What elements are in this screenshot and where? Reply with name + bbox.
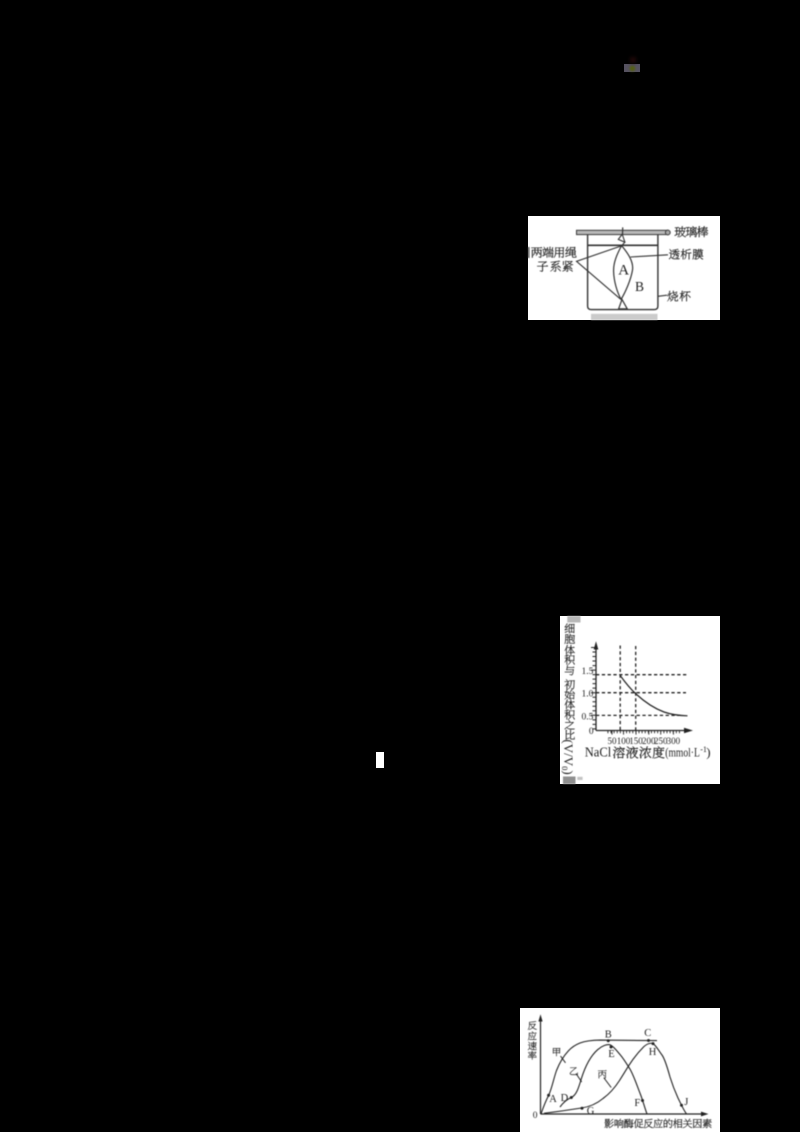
figure 1: dialysis bag in beaker bbox=[528, 216, 720, 320]
x-axis title: factors affecting enzymatic reaction bbox=[604, 1119, 711, 1128]
water surface line bbox=[588, 244, 658, 246]
gray smudge top of label column bbox=[567, 616, 580, 623]
cropped character sliver at panel left edge bbox=[528, 247, 529, 258]
label touxi mo (dialysis membrane) bbox=[669, 249, 703, 260]
svg-text:0: 0 bbox=[589, 727, 594, 737]
y axis bbox=[595, 646, 597, 731]
label bing bbox=[598, 1070, 607, 1078]
y-axis label: cell volume ratio (vertical) bbox=[565, 623, 575, 739]
pointer lines from rope label to bag top and bottom bbox=[577, 246, 622, 299]
y axis tick marks bbox=[591, 648, 596, 729]
svg-text:0: 0 bbox=[533, 1111, 538, 1121]
glass rod end knob bbox=[665, 230, 670, 235]
dashed horizontal line at 1.4 bbox=[596, 674, 687, 676]
decreasing curve V/V0 vs NaCl bbox=[620, 676, 687, 716]
curve 乙 (yi): peak at E bbox=[560, 1045, 647, 1114]
y-axis label: reaction rate bbox=[528, 1021, 537, 1059]
svg-text:C: C bbox=[644, 1028, 651, 1039]
shadow under beaker bbox=[591, 314, 658, 320]
small white rectangle marker mid-page bbox=[376, 752, 384, 768]
svg-text:F: F bbox=[634, 1098, 640, 1109]
svg-text:(V/V0): (V/V0) bbox=[560, 739, 576, 774]
knot tying bag to rod bbox=[618, 234, 625, 246]
label jia bbox=[553, 1048, 560, 1056]
string over rod bbox=[622, 227, 624, 235]
small gray chip with olive dot, top right bbox=[624, 64, 640, 73]
svg-text:1.5: 1.5 bbox=[582, 667, 594, 677]
dashed horizontal line at 1.0 bbox=[596, 692, 686, 694]
pointer line to beaker label bbox=[658, 295, 667, 296]
point dots A,B,C,D,E,F,G,H,J bbox=[547, 1039, 683, 1110]
glass rod bbox=[577, 230, 669, 234]
y axis arrowhead bbox=[594, 641, 599, 649]
svg-text:): ) bbox=[706, 745, 710, 760]
x title CJK part bbox=[613, 746, 664, 758]
label liangduan yong sheng line1 bbox=[531, 247, 576, 258]
svg-text:(mmol·L: (mmol·L bbox=[665, 745, 700, 760]
tied bottom end (small triangle) bbox=[619, 299, 628, 309]
curve 甲 (jia): rises then plateau B to C bbox=[541, 1040, 657, 1114]
faint dark red blob above chip bbox=[630, 57, 636, 63]
pointer line to dialysis membrane label bbox=[631, 255, 668, 257]
figure 3: enzyme reaction rate curves bbox=[520, 1008, 720, 1132]
gray smudge bottom of label column bbox=[563, 777, 576, 785]
y axis bbox=[540, 1018, 542, 1114]
label shaobei (beaker) bbox=[667, 291, 690, 301]
figure 2: cell volume vs NaCl concentration graph bbox=[560, 616, 720, 784]
pointer from 丙 to curve bbox=[604, 1078, 611, 1088]
y axis arrowhead bbox=[538, 1014, 542, 1021]
curve 丙 (bing): slow rise through G, peak at H, falls to J bbox=[544, 1043, 687, 1114]
label yi bbox=[570, 1067, 578, 1075]
svg-text:B: B bbox=[605, 1030, 612, 1041]
svg-text:NaCl: NaCl bbox=[585, 745, 612, 760]
svg-text:0.5: 0.5 bbox=[582, 712, 594, 722]
x axis arrowhead bbox=[701, 1112, 709, 1117]
svg-text:A: A bbox=[549, 1094, 557, 1105]
svg-text:A: A bbox=[618, 263, 629, 279]
x axis bbox=[596, 730, 686, 732]
svg-text:H: H bbox=[649, 1047, 657, 1058]
x axis bbox=[541, 1113, 704, 1115]
dialysis membrane bag bbox=[614, 246, 633, 300]
svg-text:J: J bbox=[684, 1097, 688, 1108]
beaker outline bbox=[588, 235, 658, 310]
svg-text:E: E bbox=[608, 1049, 614, 1060]
dashed vertical line at 150 bbox=[635, 646, 637, 731]
label boli bang (glass rod) bbox=[675, 226, 708, 237]
pointer from 乙 to curve bbox=[576, 1074, 582, 1083]
x axis arrowhead bbox=[684, 728, 693, 734]
label zi xi jin line2 bbox=[537, 261, 573, 272]
dashed vertical line at 100 bbox=[619, 646, 621, 731]
svg-text:1.0: 1.0 bbox=[582, 690, 594, 700]
dashed horizontal line at 0.5 bbox=[596, 714, 682, 716]
pointer from 甲 to curve bbox=[561, 1056, 566, 1063]
svg-text:D: D bbox=[561, 1093, 569, 1104]
x axis minor tick marks bbox=[608, 731, 680, 735]
svg-text:G: G bbox=[587, 1106, 595, 1117]
svg-text:B: B bbox=[635, 279, 644, 294]
